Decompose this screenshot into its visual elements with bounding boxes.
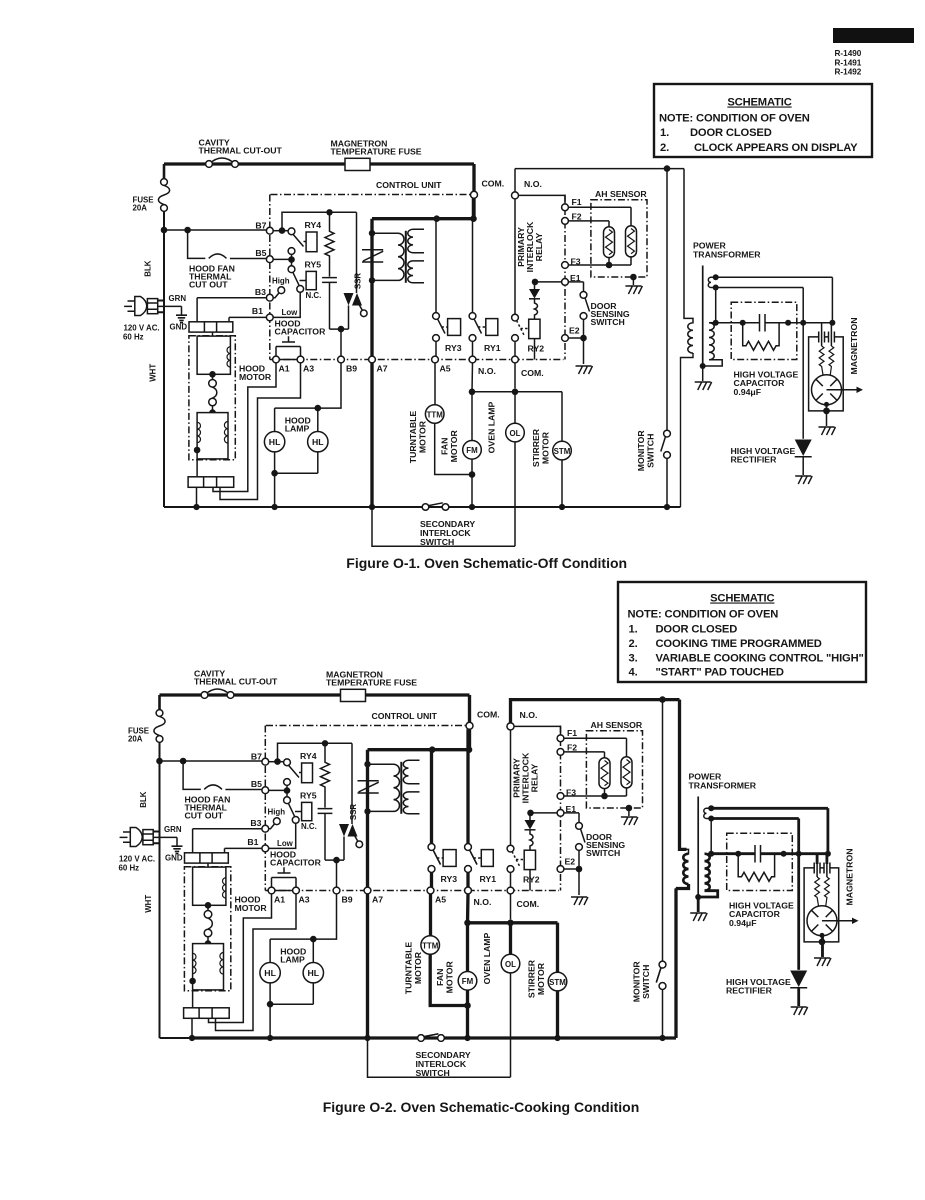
- svg-text:Figure O-2. Oven Schematic-Coo: Figure O-2. Oven Schematic-Cooking Condi…: [323, 1099, 640, 1115]
- svg-text:"START" PAD TOUCHED: "START" PAD TOUCHED: [656, 667, 784, 679]
- svg-text:2.: 2.: [660, 142, 669, 154]
- note box schematic 1: [654, 84, 872, 157]
- note box schematic 2: [618, 582, 866, 682]
- svg-text:VARIABLE COOKING CONTROL "HIGH: VARIABLE COOKING CONTROL "HIGH": [656, 652, 864, 664]
- svg-text:CLOCK APPEARS ON DISPLAY: CLOCK APPEARS ON DISPLAY: [694, 142, 858, 154]
- svg-text:3.: 3.: [629, 652, 638, 664]
- svg-text:Figure O-1. Oven Schematic-Off: Figure O-1. Oven Schematic-Off Condition: [346, 555, 627, 571]
- svg-text:NOTE: CONDITION OF OVEN: NOTE: CONDITION OF OVEN: [628, 609, 779, 621]
- svg-text:SCHEMATIC: SCHEMATIC: [710, 593, 774, 605]
- svg-text:1.: 1.: [629, 624, 638, 636]
- svg-text:1.: 1.: [660, 127, 669, 139]
- svg-text:R-1490: R-1490: [835, 49, 862, 58]
- svg-text:R-1492: R-1492: [835, 68, 862, 77]
- svg-text:DOOR CLOSED: DOOR CLOSED: [690, 127, 772, 139]
- svg-text:NOTE: CONDITION OF OVEN: NOTE: CONDITION OF OVEN: [659, 113, 810, 125]
- svg-text:SCHEMATIC: SCHEMATIC: [727, 97, 791, 109]
- svg-text:R-1491: R-1491: [835, 58, 862, 67]
- svg-text:4.: 4.: [629, 667, 638, 679]
- svg-text:COOKING TIME PROGRAMMED: COOKING TIME PROGRAMMED: [656, 638, 822, 650]
- header black bar: [833, 28, 914, 43]
- svg-text:DOOR CLOSED: DOOR CLOSED: [656, 624, 738, 636]
- svg-text:2.: 2.: [629, 638, 638, 650]
